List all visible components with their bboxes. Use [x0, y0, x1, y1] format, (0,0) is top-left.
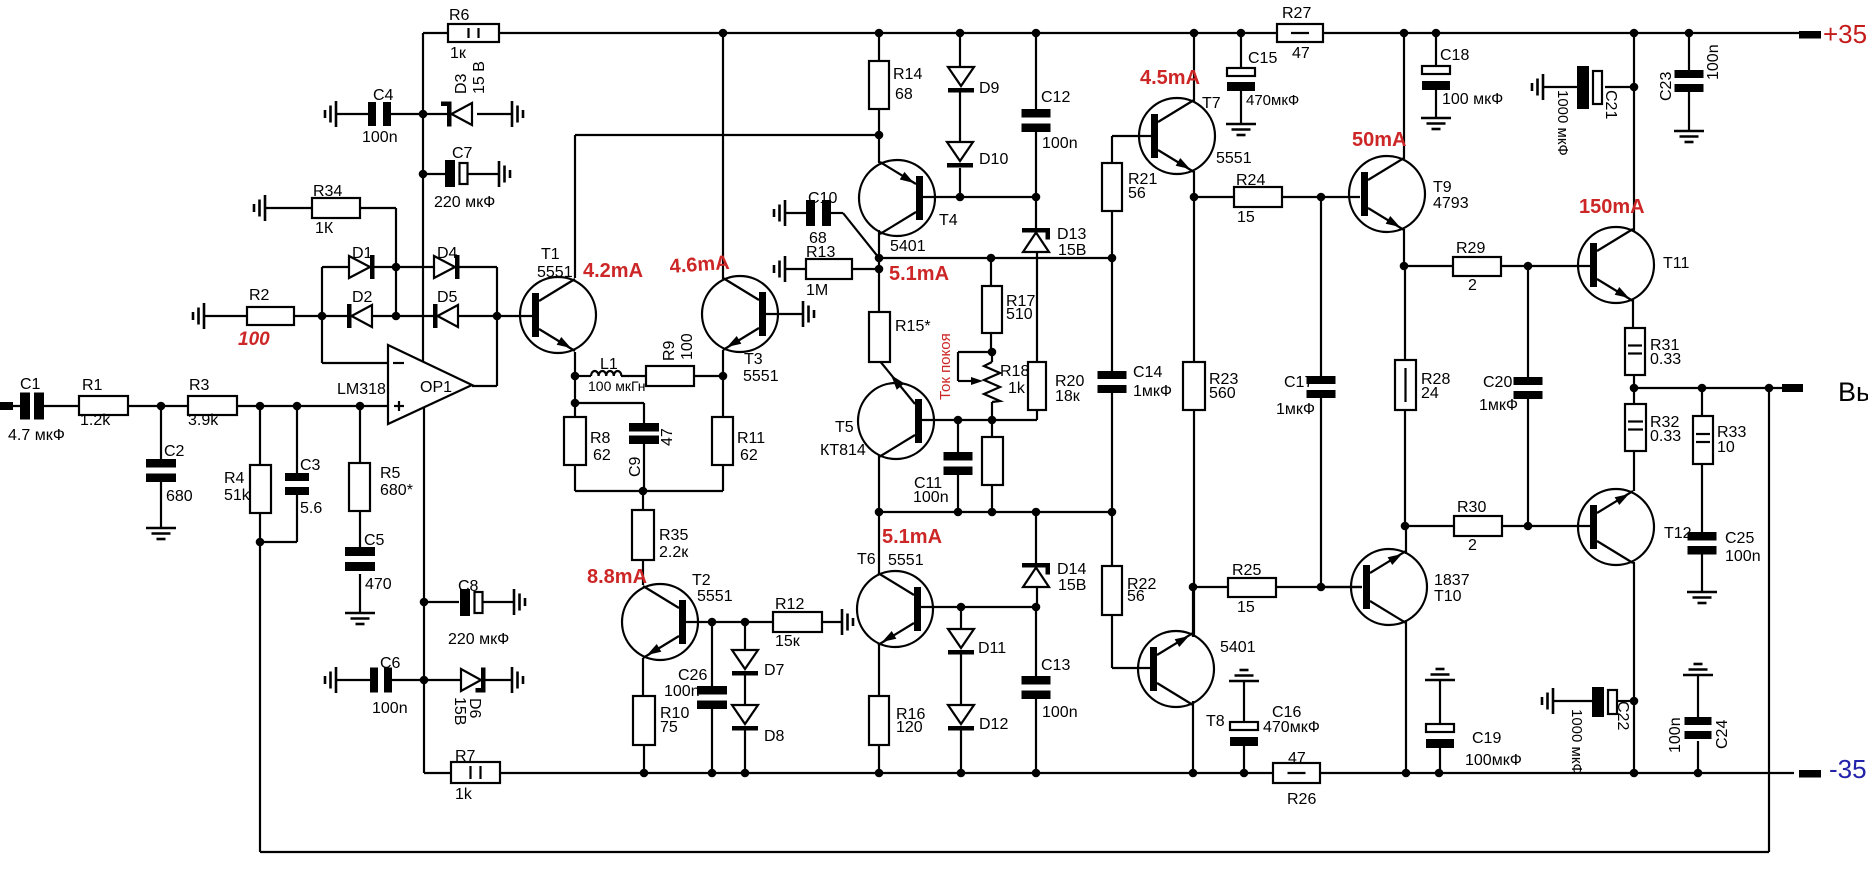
svg-text:R27: R27 [1282, 5, 1311, 22]
svg-text:LM318: LM318 [337, 381, 386, 398]
svg-text:150mA: 150mA [1579, 196, 1645, 218]
svg-text:47: 47 [1288, 750, 1306, 767]
svg-text:680: 680 [166, 488, 193, 505]
svg-text:D5: D5 [437, 289, 458, 306]
svg-text:100n: 100n [913, 489, 949, 506]
svg-text:10: 10 [1717, 439, 1735, 456]
svg-text:5.6: 5.6 [300, 500, 322, 517]
svg-text:C15: C15 [1248, 50, 1277, 67]
svg-text:5551: 5551 [697, 588, 733, 605]
svg-text:R30: R30 [1457, 499, 1486, 516]
svg-text:100n: 100n [1042, 135, 1078, 152]
svg-text:C8: C8 [458, 578, 479, 595]
svg-text:C22: C22 [1614, 701, 1631, 730]
svg-text:100: 100 [679, 333, 696, 360]
svg-text:560: 560 [1209, 385, 1236, 402]
svg-text:68: 68 [895, 86, 913, 103]
svg-text:15B: 15B [1058, 577, 1086, 594]
svg-text:C24: C24 [1714, 720, 1731, 749]
svg-text:220 мкФ: 220 мкФ [434, 194, 495, 211]
svg-text:D1: D1 [352, 245, 373, 262]
svg-text:15B: 15B [451, 697, 468, 725]
svg-text:51k: 51k [224, 487, 251, 504]
svg-text:15: 15 [1237, 599, 1255, 616]
svg-text:-35: -35 [1829, 754, 1867, 784]
svg-text:100 мкГн: 100 мкГн [588, 378, 646, 394]
svg-text:R35: R35 [659, 527, 688, 544]
svg-text:15: 15 [1237, 209, 1255, 226]
svg-text:47: 47 [659, 428, 676, 446]
svg-text:R3: R3 [189, 377, 210, 394]
svg-text:C19: C19 [1472, 730, 1501, 747]
svg-text:4.7 мкФ: 4.7 мкФ [8, 427, 65, 444]
svg-text:КТ814: КТ814 [820, 442, 866, 459]
svg-text:5551: 5551 [888, 552, 924, 569]
svg-text:100n: 100n [1705, 44, 1722, 80]
svg-text:0.33: 0.33 [1650, 428, 1681, 445]
svg-text:100n: 100n [664, 683, 700, 700]
svg-text:47: 47 [1292, 45, 1310, 62]
svg-text:L1: L1 [600, 356, 618, 373]
svg-text:+35: +35 [1823, 19, 1867, 49]
svg-text:T11: T11 [1663, 255, 1689, 272]
svg-text:T7: T7 [1202, 95, 1221, 112]
svg-text:R8: R8 [590, 430, 611, 447]
svg-text:5551: 5551 [537, 264, 573, 281]
svg-text:C14: C14 [1133, 364, 1162, 381]
svg-text:5401: 5401 [1220, 639, 1256, 656]
svg-text:4.6mA: 4.6mA [669, 252, 730, 278]
svg-text:R7: R7 [455, 748, 476, 765]
svg-text:24: 24 [1421, 385, 1439, 402]
svg-text:2: 2 [1468, 537, 1477, 554]
svg-text:1мкФ: 1мкФ [1276, 401, 1315, 418]
svg-text:T6: T6 [857, 551, 876, 568]
svg-text:T2: T2 [692, 572, 711, 589]
svg-text:R24: R24 [1236, 172, 1265, 189]
svg-text:D2: D2 [352, 289, 373, 306]
svg-text:470мкФ: 470мкФ [1263, 719, 1320, 736]
svg-text:2: 2 [1468, 277, 1477, 294]
svg-text:D13: D13 [1057, 226, 1086, 243]
svg-text:R12: R12 [775, 596, 804, 613]
svg-text:1.2k: 1.2k [80, 412, 111, 429]
svg-text:R15*: R15* [895, 318, 931, 335]
svg-text:T10: T10 [1434, 588, 1462, 605]
svg-text:1M: 1M [806, 282, 828, 299]
svg-text:R14: R14 [893, 66, 922, 83]
svg-text:1837: 1837 [1434, 572, 1470, 589]
svg-text:C9: C9 [627, 456, 644, 477]
svg-text:R5: R5 [380, 465, 401, 482]
svg-text:C3: C3 [300, 457, 321, 474]
svg-text:3.9k: 3.9k [188, 412, 219, 429]
svg-text:15к: 15к [775, 633, 801, 650]
svg-text:5401: 5401 [890, 238, 926, 255]
svg-text:D8: D8 [764, 728, 785, 745]
svg-text:1К: 1К [315, 220, 334, 237]
svg-text:C7: C7 [452, 145, 473, 162]
svg-text:D9: D9 [979, 80, 1000, 97]
svg-text:R11: R11 [737, 430, 765, 447]
svg-text:C25: C25 [1725, 530, 1754, 547]
svg-text:D3: D3 [453, 73, 470, 94]
svg-text:OP1: OP1 [420, 379, 452, 396]
svg-text:R34: R34 [313, 183, 342, 200]
svg-text:56: 56 [1127, 588, 1145, 605]
svg-text:Ток покоя: Ток покоя [937, 333, 954, 400]
svg-text:1000 мкФ: 1000 мкФ [1568, 709, 1585, 775]
svg-text:75: 75 [660, 719, 678, 736]
svg-text:1к: 1к [450, 45, 467, 62]
svg-text:D14: D14 [1057, 561, 1086, 578]
svg-text:100мкФ: 100мкФ [1465, 752, 1522, 769]
svg-text:15B: 15B [1058, 242, 1086, 259]
svg-text:D10: D10 [979, 151, 1008, 168]
svg-text:R9: R9 [661, 340, 678, 361]
svg-text:R4: R4 [224, 470, 245, 487]
svg-text:C13: C13 [1041, 657, 1070, 674]
svg-text:C6: C6 [380, 655, 401, 672]
svg-text:470мкФ: 470мкФ [1246, 92, 1299, 109]
svg-text:5551: 5551 [743, 368, 779, 385]
svg-text:D4: D4 [437, 245, 458, 262]
svg-text:120: 120 [896, 719, 923, 736]
svg-text:2.2к: 2.2к [659, 544, 689, 561]
svg-text:C21: C21 [1602, 90, 1619, 119]
svg-text:C4: C4 [373, 87, 394, 104]
svg-text:1мкФ: 1мкФ [1479, 397, 1518, 414]
svg-text:R25: R25 [1232, 562, 1261, 579]
svg-text:R26: R26 [1287, 791, 1316, 808]
svg-text:4.5mA: 4.5mA [1140, 67, 1200, 89]
svg-text:220 мкФ: 220 мкФ [448, 631, 509, 648]
svg-text:R2: R2 [249, 287, 270, 304]
svg-text:C26: C26 [678, 667, 707, 684]
svg-text:T8: T8 [1206, 713, 1225, 730]
svg-text:C18: C18 [1440, 47, 1469, 64]
svg-text:T5: T5 [835, 419, 854, 436]
svg-text:62: 62 [740, 447, 758, 464]
svg-text:T4: T4 [939, 212, 958, 229]
svg-text:T9: T9 [1433, 179, 1452, 196]
svg-text:100n: 100n [1667, 717, 1684, 753]
svg-text:470: 470 [365, 576, 392, 593]
svg-text:5.1mA: 5.1mA [889, 263, 949, 285]
svg-text:1000 мкФ: 1000 мкФ [1554, 90, 1571, 156]
svg-text:C5: C5 [364, 532, 385, 549]
svg-text:T12: T12 [1664, 525, 1692, 542]
svg-text:4793: 4793 [1433, 195, 1469, 212]
svg-text:5551: 5551 [1216, 150, 1252, 167]
svg-text:100 мкФ: 100 мкФ [1442, 91, 1503, 108]
svg-text:D7: D7 [764, 662, 785, 679]
svg-text:8.8mA: 8.8mA [587, 566, 647, 588]
svg-text:C20: C20 [1483, 374, 1512, 391]
svg-text:C2: C2 [164, 443, 185, 460]
svg-text:56: 56 [1128, 185, 1146, 202]
svg-text:100n: 100n [372, 700, 408, 717]
svg-text:680*: 680* [380, 482, 413, 499]
svg-text:4.2mA: 4.2mA [583, 260, 643, 282]
svg-text:5.1mA: 5.1mA [882, 526, 942, 548]
svg-text:D11: D11 [978, 640, 1006, 657]
svg-text:R6: R6 [449, 7, 470, 24]
svg-text:C1: C1 [20, 376, 41, 393]
svg-text:1k: 1k [1008, 380, 1026, 397]
svg-text:R18: R18 [1000, 363, 1029, 380]
svg-text:C12: C12 [1041, 89, 1070, 106]
svg-text:510: 510 [1006, 306, 1033, 323]
svg-text:100n: 100n [1725, 548, 1761, 565]
svg-text:1мкФ: 1мкФ [1133, 383, 1172, 400]
svg-text:C10: C10 [808, 190, 837, 207]
svg-text:Вых: Вых [1838, 377, 1868, 407]
svg-text:T3: T3 [744, 351, 763, 368]
svg-text:T1: T1 [541, 246, 560, 263]
svg-text:1k: 1k [455, 786, 473, 803]
svg-text:50mA: 50mA [1352, 129, 1406, 151]
svg-text:D12: D12 [979, 716, 1008, 733]
svg-text:62: 62 [593, 447, 611, 464]
svg-text:15 В: 15 В [471, 61, 488, 94]
svg-text:R29: R29 [1456, 240, 1485, 257]
svg-text:100: 100 [238, 329, 270, 350]
svg-text:18к: 18к [1055, 388, 1081, 405]
svg-text:R13: R13 [806, 244, 835, 261]
svg-text:0.33: 0.33 [1650, 351, 1681, 368]
svg-text:C17: C17 [1284, 374, 1313, 391]
svg-text:100n: 100n [362, 129, 398, 146]
svg-text:100n: 100n [1042, 704, 1078, 721]
svg-text:R1: R1 [82, 377, 103, 394]
svg-text:C23: C23 [1658, 72, 1675, 101]
